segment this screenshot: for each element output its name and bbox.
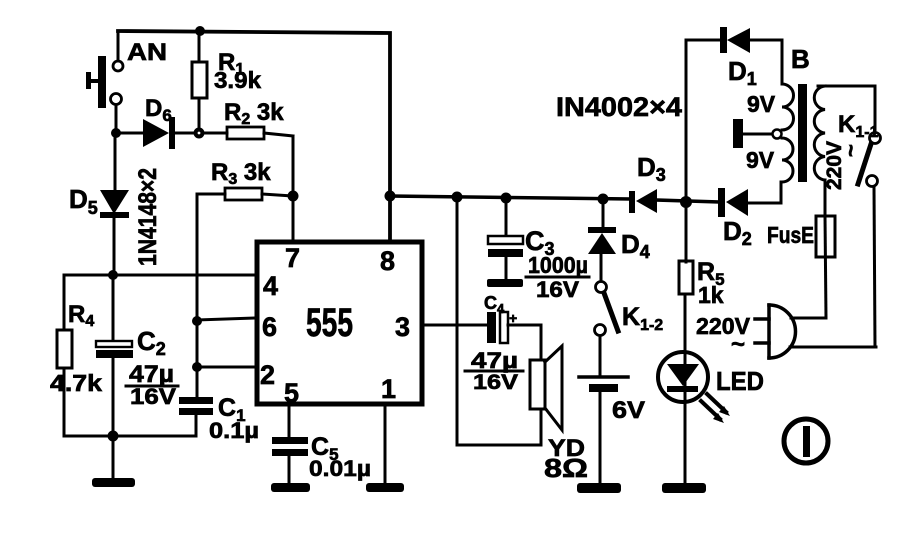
fuse	[791, 216, 835, 318]
svg-text:+: +	[509, 310, 517, 326]
battery 6V	[579, 377, 628, 484]
node junction pin7 column	[288, 191, 299, 202]
node junction D5/C2	[108, 270, 118, 280]
figure number circled 1	[784, 419, 828, 463]
node junction rail/R5/D1	[680, 196, 692, 208]
capacitor C1	[179, 397, 213, 436]
svg-text:1k: 1k	[698, 282, 724, 308]
svg-text:47µ: 47µ	[471, 348, 518, 373]
svg-text:B: B	[791, 44, 810, 74]
svg-text:FusE: FusE	[767, 222, 814, 248]
svg-text:6V: 6V	[612, 397, 645, 424]
node junction pin6	[192, 316, 202, 326]
node junction D6/D5	[111, 128, 121, 138]
diode D2	[718, 182, 781, 217]
ground below LED	[662, 483, 706, 493]
svg-text:2: 2	[260, 360, 275, 390]
ground below C5	[271, 483, 310, 492]
wire pin 4	[64, 274, 256, 277]
ground below C2	[92, 436, 135, 487]
transformer B secondary winding	[733, 84, 794, 182]
svg-text:7: 7	[285, 243, 300, 273]
svg-text:16V: 16V	[536, 277, 579, 302]
resistor R4	[57, 275, 72, 436]
svg-text:6: 6	[262, 312, 277, 342]
diode D3	[629, 189, 718, 213]
diode D1	[720, 27, 782, 84]
ground below pin 1	[366, 483, 404, 492]
svg-text:1: 1	[381, 374, 396, 404]
svg-text:1000µ: 1000µ	[528, 252, 588, 278]
svg-text:16V: 16V	[473, 371, 518, 394]
svg-text:R3 3k: R3 3k	[211, 159, 271, 188]
svg-text:9V: 9V	[746, 147, 775, 173]
resistor R5	[679, 202, 693, 484]
wire pin 2	[197, 366, 256, 369]
wire pins 6/2/C1 column	[196, 194, 199, 397]
switch K1-2	[595, 282, 619, 378]
wire pin 3	[421, 324, 487, 327]
svg-text:0.1µ: 0.1µ	[209, 418, 259, 443]
diode D4	[588, 199, 616, 282]
node junction R1 bottom	[194, 128, 205, 139]
node junction rail/D4	[598, 194, 609, 205]
capacitor C5	[272, 404, 308, 484]
svg-text:555: 555	[306, 301, 353, 345]
svg-text:4: 4	[263, 271, 278, 301]
diode D6	[143, 117, 227, 149]
capacitor C3	[487, 199, 523, 287]
svg-text:LED: LED	[716, 366, 764, 396]
svg-text:IN4002×4: IN4002×4	[556, 92, 682, 122]
svg-text:3: 3	[395, 312, 410, 342]
wire top rail from AN to pin 8	[118, 31, 390, 238]
node junction rail/C3	[501, 193, 512, 204]
wire pin 1 to ground	[384, 404, 387, 484]
svg-text:~: ~	[731, 331, 745, 358]
svg-text:1N4148×2: 1N4148×2	[134, 168, 162, 266]
resistor R2	[227, 127, 293, 240]
LED	[658, 352, 730, 423]
node junction C2 bottom	[108, 431, 119, 442]
wire D6 anode	[116, 132, 144, 135]
speaker YD	[457, 200, 562, 445]
wire D1 branch	[686, 40, 720, 202]
capacitor C4	[487, 312, 541, 360]
capacitor C2	[96, 275, 133, 436]
svg-text:0.01µ: 0.01µ	[309, 456, 371, 481]
wire positive rail	[390, 196, 630, 199]
svg-text:16V: 16V	[130, 384, 176, 409]
svg-text:5: 5	[284, 378, 299, 408]
resistor R1	[192, 31, 207, 131]
node junction pin2	[192, 362, 202, 372]
ground below battery	[577, 483, 621, 493]
svg-text:R2 3k: R2 3k	[224, 99, 284, 128]
switch K1-1	[858, 86, 881, 347]
svg-text:~: ~	[838, 144, 863, 157]
mains plug 220V	[755, 305, 876, 358]
op-amp U1 555 timer box	[257, 242, 422, 404]
svg-text:8Ω: 8Ω	[544, 453, 588, 483]
pushbutton AN	[86, 31, 123, 130]
transformer primary winding	[814, 86, 875, 216]
wire pin 6	[197, 318, 256, 320]
svg-text:9V: 9V	[747, 91, 776, 117]
svg-text:4.7k: 4.7k	[50, 370, 102, 396]
diode D5	[100, 133, 129, 274]
wire bottom left	[64, 435, 196, 438]
svg-text:AN: AN	[127, 39, 167, 66]
node junction rail/pin8	[385, 191, 396, 202]
svg-text:3.9k: 3.9k	[214, 67, 261, 93]
transformer core	[798, 84, 807, 182]
node junction rail/speaker	[452, 192, 463, 203]
svg-text:8: 8	[380, 246, 395, 276]
node junction top of R1	[195, 26, 205, 36]
resistor R3	[197, 188, 293, 200]
